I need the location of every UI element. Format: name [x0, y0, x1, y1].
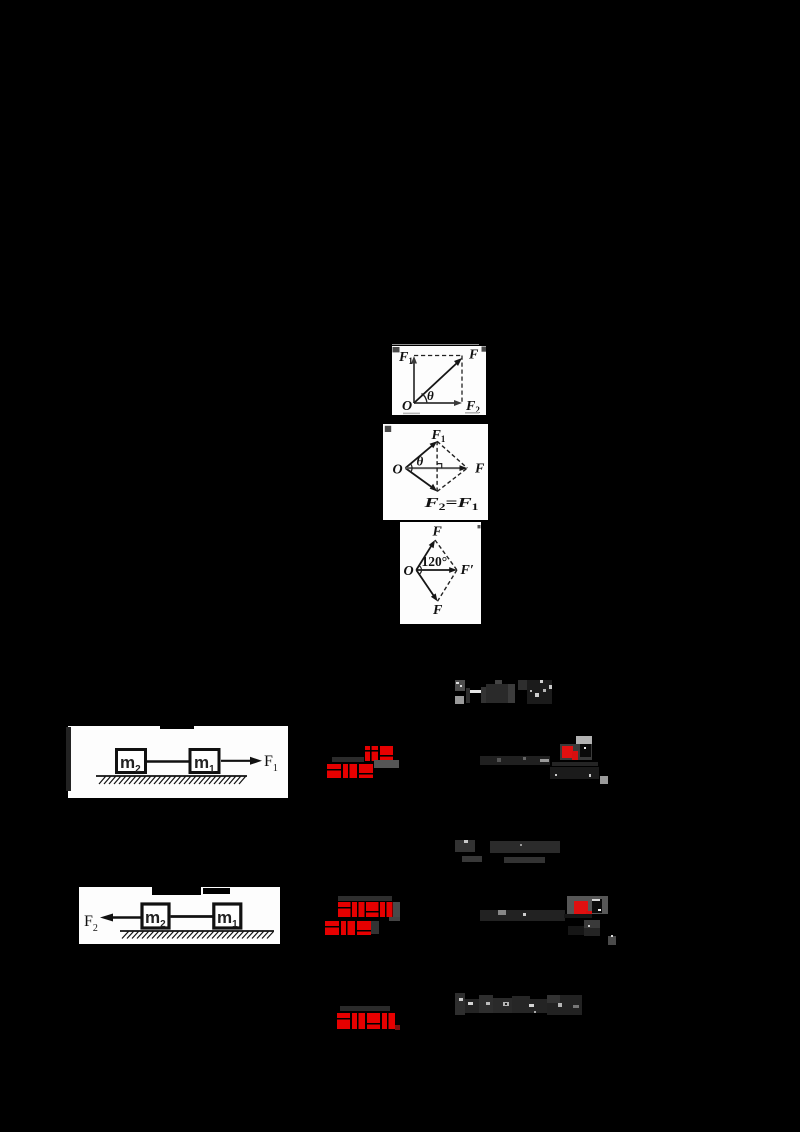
ground hatching: [122, 932, 274, 939]
gray block right: [374, 760, 399, 768]
selection handle top-left: [393, 347, 400, 352]
connecting rod: [171, 915, 214, 918]
vector F' (horizontal arrow): [416, 569, 451, 571]
dashed F' to F bottom: [438, 570, 457, 601]
red annotation 3: [335, 1005, 405, 1035]
block diagram 2 drawing: [79, 887, 280, 944]
svg-text:120°: 120°: [422, 554, 448, 569]
vector F1 (vertical arrow): [413, 360, 415, 403]
selection handle top-right: [482, 347, 487, 352]
faint red tail: [395, 1025, 400, 1030]
dark bar at panel left edge: [66, 727, 71, 791]
dashed construction right: [461, 356, 463, 403]
equation 5 traces: [455, 993, 465, 1015]
black smudge over panel top: [152, 886, 201, 895]
force diagram 3 white panel: [400, 522, 481, 624]
resultant F (diagonal arrow): [414, 362, 458, 403]
angle arc at O: [411, 464, 413, 473]
svg-text:F: F: [432, 603, 443, 618]
gray top rule above force diagram 1: [392, 344, 479, 346]
red annotation 1 line 1: [326, 744, 406, 784]
dashed construction top: [414, 355, 462, 357]
gray fragment left of red: [332, 757, 364, 762]
ground line: [120, 930, 274, 932]
vector F2 (horizontal arrow): [414, 402, 456, 404]
faint gray above: [338, 896, 392, 901]
equation 1 traces: [455, 680, 465, 691]
gray block below: [389, 917, 400, 921]
force diagram 1 white panel: [392, 346, 486, 415]
resultant F (horizontal arrow): [405, 467, 462, 469]
selection handle top-left: [385, 426, 391, 432]
faint underline O: [403, 413, 420, 415]
angle arc at O: [419, 566, 421, 575]
red m1 numerator: [574, 901, 588, 915]
fraction bar area: [552, 762, 598, 766]
denominator: [550, 767, 599, 779]
block m1: [214, 904, 241, 928]
equation 4 traces: [567, 896, 608, 914]
force F2 arrow (pointing left): [112, 916, 142, 918]
black notch over panel top: [160, 722, 194, 729]
block diagram 2 white panel: [79, 887, 280, 944]
block m2: [142, 904, 169, 928]
block diagram 1 white panel: [68, 726, 288, 798]
block m1: [190, 750, 219, 773]
svg-text:θ: θ: [427, 388, 434, 403]
svg-text:θ: θ: [417, 454, 424, 469]
svg-text:O: O: [404, 564, 414, 579]
svg-text:F: F: [474, 462, 485, 477]
angle arc theta: [422, 394, 428, 403]
svg-text:F: F: [432, 525, 443, 540]
faint gray above: [340, 1006, 390, 1011]
dashed F1 to F: [437, 441, 467, 468]
svg-text:F2: F2: [84, 913, 98, 934]
svg-text:F1: F1: [431, 428, 446, 444]
vector F down (arrow): [416, 570, 434, 597]
equation 3 traces: [455, 840, 475, 852]
faint underline F2: [465, 412, 479, 414]
svg-text:O: O: [402, 399, 412, 414]
ground hatching: [99, 777, 246, 785]
vector F2 (down-right arrow): [405, 468, 433, 488]
vector F up (arrow): [416, 544, 432, 570]
dashed F2 to F: [437, 468, 467, 491]
dashed F top to F': [435, 540, 457, 570]
block m2: [117, 750, 146, 773]
svg-text:F1: F1: [264, 753, 278, 774]
light gray block top right: [576, 736, 592, 744]
force diagram 2 drawing: [383, 424, 488, 520]
connecting rod: [146, 760, 191, 763]
red annotation 2: [324, 895, 404, 940]
block diagram 1 drawing: [68, 726, 288, 798]
dashed vertical F1 to F2: [436, 441, 438, 491]
selection handle top-right: [478, 525, 481, 528]
force diagram 2 white panel: [383, 424, 488, 520]
force diagram 1 drawing: [392, 346, 486, 415]
svg-text:F: F: [468, 348, 479, 363]
right angle mark: [437, 464, 442, 469]
ground line: [96, 775, 247, 777]
svg-text:O: O: [393, 463, 403, 478]
gray block right of line1: [393, 902, 400, 917]
red m2 numerator: [562, 746, 573, 758]
svg-text:F′: F′: [460, 563, 474, 578]
svg-text:F2=F1: F2=F1: [423, 496, 479, 512]
svg-text:F1: F1: [398, 350, 413, 366]
equation 2 traces: [480, 756, 550, 765]
force F1 arrow: [221, 760, 252, 762]
force diagram 3 drawing: [400, 522, 481, 624]
vector F1 (up-right arrow): [405, 444, 433, 468]
